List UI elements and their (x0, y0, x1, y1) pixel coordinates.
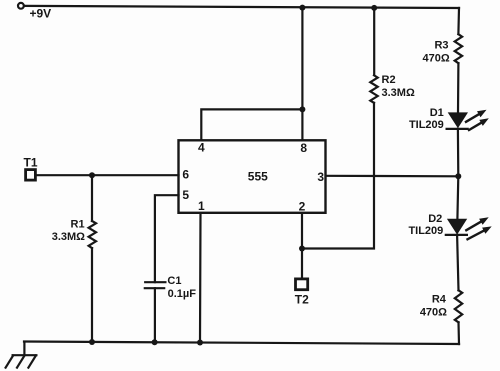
svg-text:4: 4 (198, 141, 205, 155)
svg-text:470Ω: 470Ω (420, 307, 447, 319)
LED D2 (446, 219, 467, 235)
resistor R2 (370, 75, 377, 103)
wire: D1 cathode to output node (457, 129, 460, 176)
touch plate T2 (296, 279, 308, 290)
svg-text:R4: R4 (432, 294, 447, 306)
wire: rail to R2 top (373, 8, 375, 75)
battery terminal +9V (18, 3, 24, 9)
junction: pin2 / T2 / R2 node (299, 246, 305, 252)
wire: C1 to ground (154, 288, 156, 342)
IC U1 555 timer (179, 140, 326, 213)
svg-text:8: 8 (300, 141, 307, 155)
wire: node to D2 anode (456, 176, 459, 219)
svg-text:555: 555 (248, 169, 268, 183)
wire: rail corner down to R3 (457, 8, 460, 34)
wire: pin 5 to C1 (155, 195, 179, 282)
junction: supply rail / pin8 riser (299, 5, 305, 11)
svg-text:T2: T2 (295, 292, 309, 306)
svg-text:T1: T1 (24, 156, 38, 170)
svg-text:R2: R2 (382, 74, 396, 86)
svg-text:1: 1 (198, 199, 205, 213)
wire: pin 3 output (326, 175, 459, 178)
svg-text:+9V: +9V (30, 6, 52, 20)
svg-text:6: 6 (182, 167, 189, 181)
svg-text:470Ω: 470Ω (423, 53, 450, 65)
junction: C1 / ground rail (152, 339, 158, 345)
wire: ground rail (24, 342, 459, 345)
ground symbol (6, 342, 37, 368)
LED D1 (447, 112, 468, 128)
wire: riser from rail to pin 8 (301, 8, 303, 141)
svg-text:D1: D1 (430, 107, 444, 119)
svg-text:TIL209: TIL209 (408, 225, 443, 237)
svg-text:2: 2 (299, 200, 306, 214)
wire: R2 bottom to pin 2 node (302, 103, 374, 249)
wire: +9V supply rail (25, 6, 459, 8)
resistor R4 (455, 290, 462, 322)
wire: pin 1 drop (199, 213, 202, 343)
svg-text:D2: D2 (428, 213, 442, 225)
resistor R3 (455, 34, 462, 63)
svg-text:5: 5 (182, 188, 189, 202)
junction: supply rail / R2 (371, 5, 377, 11)
svg-text:C1: C1 (167, 275, 181, 287)
svg-text:3: 3 (317, 170, 324, 184)
resistor R1 (89, 175, 96, 342)
junction: R1 tap on pin6 wire (89, 172, 95, 178)
wire: R4 to ground rail corner (457, 322, 460, 344)
capacitor C1 (145, 282, 166, 288)
junction: R1 / ground rail (89, 339, 95, 345)
wire: R3 to D1 anode (457, 63, 460, 113)
svg-text:TIL209: TIL209 (409, 119, 444, 131)
junction: pin 4 link tee (299, 106, 305, 112)
svg-text:R3: R3 (434, 40, 448, 52)
wire: D2 cathode to R4 (457, 235, 458, 290)
wire: pin 2 drop (301, 213, 303, 249)
svg-text:0.1µF: 0.1µF (168, 288, 197, 300)
wire: node to T2 (301, 249, 303, 278)
wire: pin 4 to pin 8 link (201, 109, 302, 140)
junction: output node pin3/D1/D2 (455, 173, 461, 179)
svg-text:3.3MΩ: 3.3MΩ (52, 231, 85, 243)
light arrows D1 (466, 110, 489, 130)
touch plate T1 (26, 170, 36, 181)
svg-text:R1: R1 (71, 219, 85, 231)
svg-text:3.3MΩ: 3.3MΩ (382, 87, 415, 99)
junction: pin1 / ground rail (197, 340, 203, 346)
light arrows D2 (466, 217, 491, 239)
wire: T1 to pin 6 (37, 174, 178, 176)
